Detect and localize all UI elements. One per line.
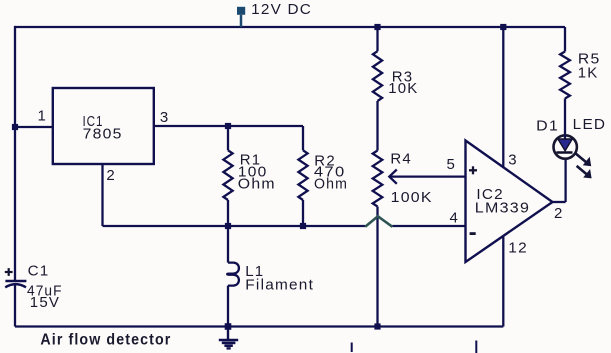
svg-text:7805: 7805 [83, 125, 123, 142]
resistor R1 [223, 150, 232, 200]
R4 wiper arrowhead [389, 170, 397, 184]
IC1 7805 regulator box [53, 88, 154, 164]
node R2 bottom [300, 223, 306, 229]
op-amp comparator IC2 LM339 triangle [466, 141, 553, 263]
12V DC supply stub [240, 15, 243, 27]
svg-text:1: 1 [38, 107, 48, 124]
wire bottom rail [15, 325, 503, 327]
wire pin3 IC1 to R1 R2 tops [154, 125, 303, 127]
wire R5 branch top [564, 27, 566, 52]
node L1 bottom on ground rail [225, 323, 232, 330]
ground symbol [219, 329, 238, 348]
svg-text:5: 5 [447, 156, 457, 173]
svg-text:3: 3 [160, 109, 170, 126]
svg-text:1K: 1K [578, 64, 599, 81]
IC2 plus input mark [469, 166, 477, 174]
node R1 bottom [225, 223, 231, 229]
LED D1 circle [554, 135, 577, 158]
node pin1 on left border [12, 124, 18, 130]
wire pin3 IC2 from top rail [502, 27, 504, 167]
svg-text:LED: LED [573, 116, 607, 133]
capacitor C1 plates [5, 281, 26, 287]
svg-text:Ohm: Ohm [238, 176, 276, 193]
wire R1 leads [227, 126, 229, 150]
svg-text:Ohm: Ohm [314, 176, 348, 193]
wire R5 to LED [564, 99, 566, 137]
stray mark left tick bottom [351, 343, 353, 353]
svg-text:C1: C1 [28, 263, 50, 280]
svg-text:2: 2 [106, 167, 116, 184]
wire top rail 12V [15, 26, 565, 28]
stray mark right tick bottom [475, 341, 477, 353]
LED light arrow 1 [576, 154, 589, 165]
LED light arrow 2 [577, 166, 590, 177]
IC2 minus input mark [470, 232, 476, 235]
svg-text:4: 4 [450, 210, 460, 227]
wire R2 leads [302, 126, 304, 150]
svg-text:LM339: LM339 [475, 200, 530, 217]
wire L1 leads [227, 226, 229, 263]
node pin3 IC2 on 12V rail [500, 24, 506, 30]
LED D1 triangle [558, 139, 572, 151]
12V DC supply square terminal [237, 7, 245, 15]
node R1 top [225, 123, 231, 129]
resistor R2 [298, 150, 307, 200]
svg-text:Filament: Filament [245, 276, 314, 293]
LED D1 cathode bar [556, 151, 572, 154]
svg-text:2: 2 [554, 205, 564, 222]
capacitor C1 plus sign [5, 268, 13, 276]
svg-text:Air flow detector: Air flow detector [40, 332, 171, 349]
wire mid rail right of hop to pin4 [392, 225, 465, 227]
svg-text:15V: 15V [30, 294, 60, 311]
junction node dots [12, 24, 507, 330]
node R4 bottom on ground rail [374, 323, 380, 329]
wire mid rail left of hop [103, 225, 366, 227]
inductor L1 coil [227, 263, 239, 286]
wire pin12 IC2 to bottom rail [502, 236, 504, 327]
svg-text:12: 12 [508, 239, 528, 256]
wire LED to pin2 junction [564, 158, 566, 202]
svg-text:R4: R4 [390, 151, 412, 168]
svg-text:10K: 10K [388, 80, 418, 97]
svg-text:12V DC: 12V DC [251, 1, 312, 18]
wire left border upper [14, 26, 16, 281]
wire hop crossover bump [365, 216, 392, 227]
potentiometer R4 [373, 151, 383, 207]
wire pin2 output [553, 201, 566, 203]
wire pin1 IC1 [15, 126, 53, 128]
wire pin2 IC1 down [101, 164, 103, 226]
wire left border lower [14, 285, 16, 327]
node R3 top on 12V rail [374, 24, 380, 30]
svg-text:100K: 100K [391, 189, 433, 206]
wire pin5 from R4 wiper [391, 175, 466, 177]
svg-text:D1: D1 [536, 117, 559, 134]
resistor R5 [560, 52, 570, 99]
resistor R3 [373, 51, 382, 101]
wire R3 R4 vertical chain [376, 27, 378, 51]
svg-text:3: 3 [508, 152, 518, 169]
LED D1 anode lead inside [564, 135, 566, 140]
